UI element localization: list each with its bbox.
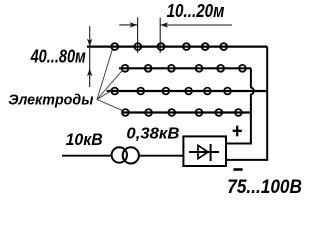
positive bus vertical wire with hop over row 3 <box>251 68 254 143</box>
svg-text:0,38кВ: 0,38кВ <box>126 126 179 143</box>
svg-text:10кВ: 10кВ <box>66 130 103 149</box>
electrode row 2 wire <box>119 67 251 69</box>
dimension tick left <box>137 18 139 54</box>
label Электроды <box>8 92 93 109</box>
svg-text:40...80м: 40...80м <box>30 45 86 66</box>
rectifier box U1 <box>183 136 226 166</box>
electrode row 3 wire <box>107 90 268 92</box>
wire transformer to rectifier <box>139 155 183 157</box>
leader to row 1 electrode <box>97 50 112 100</box>
dimension tick right <box>159 18 161 54</box>
diode VD1 <box>189 144 219 161</box>
plus terminal label <box>233 126 242 137</box>
transformer T1 <box>112 147 139 163</box>
electrode row 1 electrodes <box>111 43 227 50</box>
svg-text:Электроды: Электроды <box>8 92 93 109</box>
svg-text:75...100В: 75...100В <box>227 176 302 196</box>
leader to row 4 electrode <box>97 100 123 111</box>
dimension line 40...80м vertical with arrows <box>87 26 92 87</box>
electrode row 4 wire <box>122 111 251 113</box>
electrode row 1 wire <box>87 45 267 47</box>
dimension label 10...20м <box>167 1 225 21</box>
negative bus vertical wire (right outer) <box>266 47 268 160</box>
label 75...100В <box>227 176 302 198</box>
electrode row 3 electrodes <box>111 88 231 95</box>
dimension label 40...80м <box>30 45 86 66</box>
minus terminal label <box>233 168 242 171</box>
electrode row 2 electrodes <box>122 65 246 72</box>
wire rectifier plus output <box>226 143 252 145</box>
dimension line 10...20м right stub with arrow <box>160 22 232 27</box>
wire rectifier minus output <box>226 159 268 161</box>
label 10кВ <box>66 130 103 149</box>
electrode row 4 electrodes <box>122 109 242 116</box>
dimension line 10...20м left stub with arrow <box>119 22 137 27</box>
leader to row 2 electrode <box>97 70 122 99</box>
leader to row 3 electrode <box>97 91 111 100</box>
wire 10kV feed <box>62 155 112 157</box>
label 0,38кВ <box>126 126 179 143</box>
svg-text:10...20м: 10...20м <box>167 1 225 21</box>
